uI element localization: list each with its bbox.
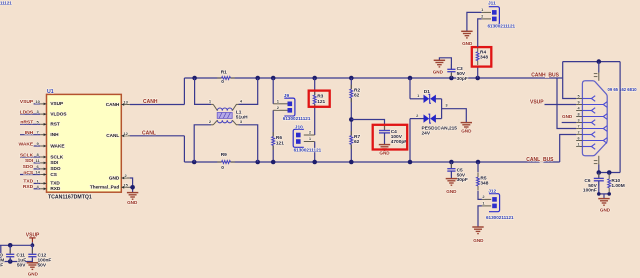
junction bottom rail / R7 bbox=[349, 160, 354, 165]
svg-text:nRST: nRST bbox=[20, 120, 33, 126]
svg-text:121: 121 bbox=[317, 99, 325, 105]
svg-text:GND: GND bbox=[462, 41, 473, 46]
svg-text:RST: RST bbox=[50, 122, 60, 127]
red highlight box around R3 bbox=[309, 91, 330, 107]
svg-text:R2: R2 bbox=[354, 88, 360, 94]
wire D1 pin 2 to bottom rail bbox=[410, 118, 424, 120]
svg-text:24V: 24V bbox=[422, 130, 431, 136]
junction top rail / R3 branch bbox=[312, 76, 317, 81]
connector J12 bbox=[489, 194, 500, 212]
svg-text:CANH: CANH bbox=[143, 99, 158, 105]
D-sub mounting pin 10 stub bbox=[598, 62, 600, 73]
TVS diode D1 lower element bbox=[424, 114, 430, 122]
svg-text:09 65 162 6810: 09 65 162 6810 bbox=[608, 87, 638, 92]
svg-text:62: 62 bbox=[354, 139, 360, 145]
U1 pin 15 (Thermal_Pad) bbox=[121, 186, 130, 188]
svg-text:SDI: SDI bbox=[25, 158, 34, 164]
svg-text:J12: J12 bbox=[488, 189, 496, 195]
wire to shield ground bbox=[603, 194, 605, 199]
svg-text:C11: C11 bbox=[16, 252, 25, 258]
svg-text:CANL: CANL bbox=[106, 133, 119, 138]
wire U1 GND pin to Thermal_Pad junction bbox=[130, 178, 133, 193]
U1 pin 6 (SDO) with net label SDO bbox=[34, 168, 41, 170]
inductor L1 bottom winding bbox=[217, 120, 232, 123]
svg-text:8: 8 bbox=[578, 113, 580, 117]
svg-text:INH: INH bbox=[25, 130, 34, 136]
svg-text:11121: 11121 bbox=[0, 0, 12, 5]
svg-text:R7: R7 bbox=[354, 134, 360, 140]
svg-text:1.00M: 1.00M bbox=[611, 183, 624, 189]
svg-text:R4: R4 bbox=[480, 49, 486, 55]
svg-text:SDO: SDO bbox=[50, 166, 61, 171]
svg-text:CANH: CANH bbox=[106, 102, 120, 107]
junction C11 bottom bbox=[8, 259, 13, 264]
wire CANH from U1 pin 13 bbox=[130, 104, 185, 106]
U1 pin 14 (CS) with net label nCS bbox=[20, 174, 40, 176]
wire GND to DB9 pin 3 bbox=[562, 122, 577, 124]
svg-text:GND: GND bbox=[379, 150, 390, 155]
connector J10 pin stubs bbox=[304, 134, 315, 136]
ground at C3 bbox=[434, 59, 445, 61]
svg-text:GND: GND bbox=[446, 189, 457, 194]
D-sub pin 1 bbox=[576, 146, 582, 148]
wire shield to DB9 pin 5 bbox=[563, 62, 577, 99]
svg-text:D1: D1 bbox=[424, 89, 430, 95]
resistor R1 (0 ohm) on top rail bbox=[222, 76, 231, 80]
svg-text:TXD: TXD bbox=[50, 181, 60, 186]
svg-text:50V: 50V bbox=[17, 263, 26, 269]
wire J9-R6 branch vertical bbox=[272, 78, 274, 104]
wire top rail to D1 pin 1 bbox=[408, 76, 413, 81]
wire L1 pin 2 riser bbox=[194, 125, 211, 162]
svg-text:GND: GND bbox=[473, 238, 484, 243]
resistor R9 (0 ohm) on bottom rail bbox=[222, 160, 231, 164]
U1 pin 10 (VSUP) with net label VSUP bbox=[34, 103, 41, 105]
op-amp U1 body (TCAN1167DMTQ1 transceiver) bbox=[47, 94, 122, 192]
U1 pin 12 (CANL) bbox=[121, 135, 130, 137]
svg-text:SDO: SDO bbox=[23, 164, 34, 170]
ground shield bbox=[598, 198, 609, 200]
wire L1 pin 4 drop bbox=[239, 78, 258, 104]
TVS diode D1 upper element bbox=[424, 95, 430, 103]
wire shield top bbox=[563, 61, 621, 63]
svg-text:VLDOS: VLDOS bbox=[50, 111, 66, 116]
resistor R4 348 bbox=[476, 52, 480, 61]
svg-text:1uF: 1uF bbox=[18, 257, 27, 263]
svg-text:30pF: 30pF bbox=[457, 76, 468, 82]
svg-text:LDOS: LDOS bbox=[20, 109, 34, 115]
wire shield right drop bbox=[619, 62, 621, 173]
svg-text:SDI: SDI bbox=[50, 160, 58, 165]
wire shield net bottom bbox=[599, 172, 620, 174]
resistor R2 62 bbox=[349, 89, 353, 98]
svg-text:U1: U1 bbox=[47, 89, 54, 95]
svg-text:INH: INH bbox=[50, 132, 59, 137]
capacitor C12 100nF 50V bbox=[31, 245, 33, 253]
wire CANL from U1 pin 12 bbox=[130, 135, 185, 137]
wire CANH_BUS to DB9 pin 7 bbox=[557, 78, 576, 129]
connector D-sub 9 body bbox=[582, 81, 607, 156]
junction top rail to L1 pin 4 riser bbox=[255, 76, 260, 81]
ground below C5 bbox=[446, 178, 457, 180]
svg-text:7: 7 bbox=[578, 125, 580, 129]
D-sub pin 9 bbox=[576, 104, 582, 106]
svg-text:R1: R1 bbox=[221, 70, 227, 76]
svg-text:6: 6 bbox=[578, 137, 580, 141]
svg-text:VSUP: VSUP bbox=[20, 99, 34, 105]
junction top rail to L1 pin 1 drop bbox=[192, 76, 197, 81]
svg-text:CANL: CANL bbox=[142, 131, 156, 137]
svg-text:100nF: 100nF bbox=[583, 188, 597, 194]
U1 pin 3 (VLDOS) with net label LDOS bbox=[20, 113, 40, 115]
svg-text:121: 121 bbox=[276, 141, 284, 147]
svg-text:1: 1 bbox=[578, 143, 580, 147]
wire R4 vertical bbox=[477, 65, 479, 78]
U1 pin 8 (SCLK) with net label SCLK bbox=[20, 156, 40, 158]
wire R5 to J12 pin 2 bbox=[478, 191, 482, 200]
svg-text:GND: GND bbox=[562, 114, 573, 119]
svg-text:SCLK: SCLK bbox=[20, 152, 34, 158]
svg-text:GND: GND bbox=[433, 69, 444, 74]
ground at J11 pin 1 bbox=[461, 30, 472, 32]
svg-text:61300211121: 61300211121 bbox=[283, 116, 311, 121]
svg-text:R6: R6 bbox=[276, 135, 282, 141]
svg-text:RXD: RXD bbox=[23, 184, 34, 190]
svg-text:J10: J10 bbox=[295, 125, 303, 131]
svg-text:M: M bbox=[0, 257, 4, 263]
ground below U1 bbox=[127, 192, 138, 194]
svg-text:RXD: RXD bbox=[50, 186, 61, 191]
svg-text:GND: GND bbox=[461, 129, 472, 134]
resistor R7 62 bbox=[349, 136, 353, 145]
D-sub pin 5 bbox=[576, 98, 582, 100]
junction C11 top bbox=[8, 243, 13, 248]
junction bottom rail / R6 bbox=[271, 160, 276, 165]
junction shield/R10 bbox=[607, 170, 612, 175]
svg-text:50V: 50V bbox=[38, 263, 47, 269]
svg-text:0: 0 bbox=[0, 252, 3, 258]
svg-text:TCAN1167DMTQ1: TCAN1167DMTQ1 bbox=[48, 194, 92, 200]
U1 pin 1 (TXD) with net label TXD bbox=[34, 182, 41, 184]
svg-text:5: 5 bbox=[578, 95, 580, 99]
connector J10 bbox=[293, 129, 304, 147]
U1 pin 9 (WAKE) with net label WAKE bbox=[34, 145, 41, 147]
wire CANH up to top rail bbox=[183, 78, 185, 105]
connector J9 bbox=[284, 98, 295, 116]
svg-text:WAKE: WAKE bbox=[50, 143, 64, 148]
D-sub pin 3 bbox=[576, 122, 582, 124]
resistor R10 1.00M bbox=[608, 173, 610, 175]
wire U1 Thermal_Pad pin bbox=[130, 186, 133, 188]
svg-text:CANL_BUS: CANL_BUS bbox=[526, 157, 554, 163]
junction R2/R7 midpoint to C4 bbox=[349, 117, 354, 122]
connector J12 pin stubs bbox=[482, 198, 491, 200]
U1 pin 13 (CANH) bbox=[121, 104, 130, 106]
ground at J12 pin 1 bbox=[472, 226, 483, 228]
inductor L1 core bbox=[217, 113, 232, 119]
wire CANL down to bottom rail bbox=[183, 136, 185, 162]
wire to capacitor C4 bbox=[351, 120, 384, 131]
U1 pin 5 (RST) with net label nRST bbox=[20, 123, 40, 125]
wire VSUP rail top bbox=[0, 244, 32, 246]
svg-text:9: 9 bbox=[578, 101, 580, 105]
junction top rail / R2 bbox=[349, 76, 354, 81]
wire bottom rail CANL_BUS bbox=[184, 161, 559, 163]
svg-text:J11: J11 bbox=[488, 0, 496, 6]
svg-text:GND: GND bbox=[127, 200, 138, 205]
svg-text:F: F bbox=[0, 263, 3, 269]
resistor R6 121 bbox=[271, 137, 275, 146]
wire R2-R7 vertical bbox=[350, 78, 352, 162]
svg-text:C12: C12 bbox=[38, 252, 47, 258]
svg-text:51uH: 51uH bbox=[236, 114, 248, 120]
D-sub pin 8 bbox=[576, 116, 582, 118]
ground below C12 bbox=[31, 262, 33, 263]
svg-text:nCS: nCS bbox=[23, 170, 34, 176]
D-sub pin 4 bbox=[576, 110, 582, 112]
inductor L1 top winding bbox=[217, 108, 232, 111]
svg-text:SCLK: SCLK bbox=[50, 154, 63, 159]
svg-text:61300211121: 61300211121 bbox=[294, 148, 322, 153]
junction shield / mounting pin 10 bbox=[597, 59, 602, 64]
wire VSUP to DB9 pin 9 bbox=[545, 104, 577, 106]
svg-text:CS: CS bbox=[50, 172, 57, 177]
U1 pin 11 (SDI) with net label SDI bbox=[34, 162, 41, 164]
U1 pin 2 (GND) bbox=[121, 177, 130, 179]
svg-text:0: 0 bbox=[221, 79, 224, 85]
cut-off capacitor at left edge bbox=[0, 245, 2, 261]
wire L1 pin 3 riser bbox=[239, 125, 258, 162]
D-sub pin 7 bbox=[576, 128, 582, 130]
wire J11 pin 1 to ground bbox=[467, 12, 482, 31]
junction bottom rail to L1 pin 2 riser bbox=[192, 160, 197, 165]
capacitor C5 30pF 50V bbox=[450, 162, 452, 168]
wire R4 to J11 pin 2 bbox=[478, 19, 482, 47]
wire R5 vertical bbox=[477, 162, 479, 172]
svg-text:61300211121: 61300211121 bbox=[486, 215, 514, 220]
svg-text:30pF: 30pF bbox=[457, 177, 468, 183]
svg-text:GND: GND bbox=[28, 271, 39, 276]
svg-text:0: 0 bbox=[221, 165, 224, 171]
resistor R3 121 bbox=[313, 95, 317, 104]
svg-text:R9: R9 bbox=[221, 152, 227, 158]
svg-text:WAKE: WAKE bbox=[19, 141, 34, 147]
wire R3-J10 branch vertical bbox=[314, 78, 316, 135]
junction top rail / R4 bbox=[475, 76, 480, 81]
wire J12 pin 1 to ground bbox=[478, 206, 482, 227]
svg-text:348: 348 bbox=[480, 55, 488, 61]
capacitor C4 4700pF 100V bbox=[384, 126, 386, 131]
connector J9 pin stubs bbox=[273, 103, 288, 105]
capacitor C11 1uF 50V bbox=[9, 245, 11, 253]
ground at D1 pin 3 bbox=[461, 122, 472, 124]
svg-text:3: 3 bbox=[578, 119, 580, 123]
D-sub mounting pin 11 stub bbox=[598, 156, 600, 165]
junction top rail / J9-R6 branch bbox=[271, 76, 276, 81]
svg-text:4700pF: 4700pF bbox=[391, 139, 408, 145]
svg-text:J9: J9 bbox=[284, 93, 290, 99]
wire L1 pin 1 drop bbox=[195, 78, 211, 104]
svg-text:GND: GND bbox=[600, 207, 611, 212]
resistor R5 348 bbox=[476, 177, 480, 186]
svg-text:14: 14 bbox=[35, 170, 40, 175]
svg-text:10: 10 bbox=[35, 99, 40, 104]
svg-text:R3: R3 bbox=[317, 93, 323, 99]
svg-text:GND: GND bbox=[109, 175, 120, 180]
junction bottom rail to L1 pin 3 bbox=[255, 160, 260, 165]
svg-text:VSUP: VSUP bbox=[50, 101, 63, 106]
svg-text:TXD: TXD bbox=[23, 179, 33, 185]
junction bottom rail / R5 bbox=[476, 160, 481, 165]
U1 pin 7 (INH) with net label INH bbox=[20, 134, 40, 136]
svg-text:100nF: 100nF bbox=[38, 257, 52, 263]
ground below C4 bbox=[379, 144, 390, 146]
junction bottom rail / J10 bbox=[312, 160, 317, 165]
junction Thermal_Pad/GND bbox=[130, 185, 135, 190]
svg-text:62: 62 bbox=[354, 93, 360, 99]
junction shield/C6 bbox=[597, 170, 602, 175]
capacitor C3 30pF 50V bbox=[450, 73, 452, 78]
svg-text:VSUP: VSUP bbox=[530, 99, 544, 105]
svg-text:348: 348 bbox=[480, 181, 488, 187]
D-sub pin 6 bbox=[576, 140, 582, 142]
wire CANL_BUS to DB9 pin 2 bbox=[560, 135, 577, 163]
svg-text:61300211121: 61300211121 bbox=[488, 24, 516, 29]
junction bottom rail / C5 bbox=[449, 160, 454, 165]
red highlight box around R4 bbox=[472, 47, 492, 67]
svg-text:2: 2 bbox=[578, 131, 580, 135]
capacitor C6 100nF 50V bbox=[598, 173, 600, 179]
svg-text:Thermal_Pad: Thermal_Pad bbox=[90, 185, 120, 190]
U1 pin 4 (RXD) with net label RXD bbox=[34, 188, 41, 190]
red highlight box around C4 bbox=[373, 125, 408, 150]
connector J11 pin stubs bbox=[482, 11, 491, 13]
wire top rail CANH_BUS bbox=[184, 77, 562, 79]
connector J11 bbox=[489, 7, 500, 25]
D-sub pin 2 bbox=[576, 134, 582, 136]
wire C6/R10 bottom join bbox=[599, 193, 609, 195]
wire VSUP rail bottom bbox=[0, 261, 32, 263]
junction top rail / C3 bbox=[449, 76, 454, 81]
svg-text:R5: R5 bbox=[480, 176, 486, 182]
svg-text:CANH_BUS: CANH_BUS bbox=[531, 72, 559, 78]
wire D1 pin 3 to ground bbox=[436, 98, 442, 100]
